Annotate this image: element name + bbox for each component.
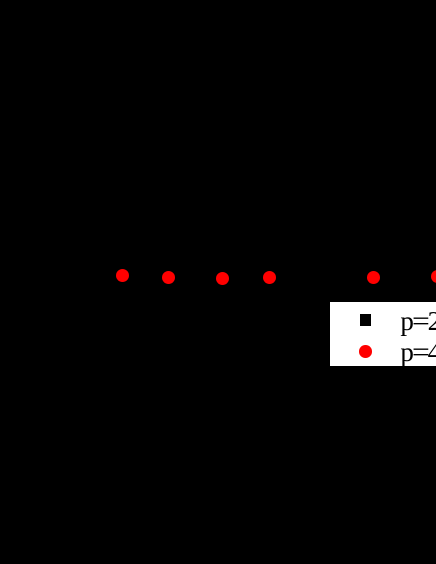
- data point p4-2: [162, 271, 175, 284]
- legend label p=4: [400, 339, 413, 366]
- data point p4-1: [116, 269, 129, 282]
- data point p4-6 clipped: [431, 270, 436, 283]
- legend marker p=4 circle: [359, 345, 372, 358]
- legend label p=2: [400, 308, 413, 335]
- data point p4-3: [216, 272, 229, 285]
- data point p4-5: [367, 271, 380, 284]
- legend box: [330, 302, 436, 366]
- legend marker p=2 square: [360, 314, 371, 326]
- data point p4-4: [263, 271, 276, 284]
